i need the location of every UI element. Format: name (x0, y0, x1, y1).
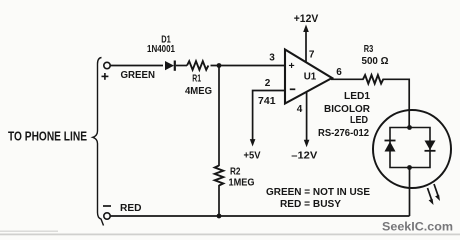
node top of square (407, 125, 412, 130)
pin 4 wire -12V (306, 92, 308, 141)
resistor R2 (215, 166, 224, 186)
svg-text:1MEG: 1MEG (229, 178, 255, 189)
label GREEN (121, 69, 156, 81)
wire junction down to R2 (218, 66, 220, 167)
svg-text:SeekIC.com: SeekIC.com (382, 222, 453, 234)
svg-text:741: 741 (258, 95, 276, 107)
svg-text:4: 4 (297, 104, 303, 115)
svg-text:RED: RED (120, 202, 142, 214)
label 741 (258, 95, 276, 107)
label 500 ohm (362, 56, 389, 67)
label BICOLOR (324, 104, 371, 115)
wire D1 to R1 (176, 65, 187, 67)
svg-text:U1: U1 (304, 71, 317, 83)
label RED (120, 202, 142, 214)
wire RED line (111, 215, 410, 217)
wire R2 to RED line (218, 185, 220, 216)
opamp plus input mark (289, 60, 295, 72)
svg-text:–12V: –12V (291, 149, 317, 161)
pin 4 label (297, 104, 303, 115)
node junction R2/RED (217, 214, 222, 219)
svg-text:3: 3 (269, 53, 275, 64)
label RS-276-012 (318, 128, 369, 139)
label 1N4001 (147, 44, 175, 55)
LED1 circle (373, 110, 451, 188)
svg-text:R1: R1 (192, 73, 201, 84)
wire R1 to op-amp pin 3 (211, 65, 286, 67)
op-amp U1 (285, 50, 332, 104)
label 4MEG (185, 86, 212, 97)
svg-text:+5V: +5V (244, 149, 261, 161)
label -12V (291, 149, 317, 161)
pin 6 label (336, 67, 342, 78)
pin 7 wire +12V (305, 30, 307, 62)
svg-text:BICOLOR: BICOLOR (324, 104, 371, 115)
arrow -12V (304, 140, 310, 147)
LED inner square (390, 128, 430, 168)
diode right (points down) (425, 141, 436, 151)
label TO PHONE LINE (8, 130, 87, 144)
pin 7 label (309, 50, 315, 61)
label 1MEG (229, 178, 255, 189)
svg-text:GREEN: GREEN (121, 69, 156, 81)
label R2 (230, 167, 241, 178)
svg-text:2: 2 (265, 78, 271, 89)
label R1 (192, 73, 201, 84)
svg-text:7: 7 (309, 50, 315, 61)
minus sign (103, 205, 111, 207)
svg-text:+: + (289, 60, 295, 72)
label D1 (161, 35, 171, 46)
svg-text:R3: R3 (364, 44, 374, 55)
diode left (points up) (385, 141, 396, 152)
label +5V (244, 149, 261, 161)
svg-text:LED1: LED1 (344, 91, 370, 102)
svg-text:4MEG: 4MEG (185, 86, 212, 97)
terminal RED (-) (104, 213, 110, 219)
watermark SeekIC.com (382, 222, 453, 234)
svg-text:6: 6 (336, 67, 342, 78)
label LED (350, 115, 368, 126)
wire pin 2 to +5V branch (253, 91, 286, 141)
brace TO PHONE LINE (93, 58, 104, 226)
pin 2 label (265, 78, 271, 89)
node junction R1/R2 (217, 63, 222, 68)
resistor R3 (363, 75, 383, 84)
svg-text:500 Ω: 500 Ω (362, 56, 389, 67)
svg-text:RED = BUSY: RED = BUSY (280, 199, 341, 210)
arrow +5V (250, 139, 256, 146)
resistor R1 (187, 61, 208, 70)
node bottom of square (407, 165, 412, 170)
label U1 (304, 71, 317, 83)
wire op-amp output to R3 (331, 78, 364, 80)
LED emission arrow 2 (434, 184, 440, 201)
label LED1 (344, 91, 370, 102)
svg-text:LED: LED (350, 115, 368, 126)
scan streak bottom (0, 231, 460, 236)
wire LED bottom to RED line (409, 168, 411, 217)
svg-text:TO PHONE LINE: TO PHONE LINE (8, 130, 87, 144)
plus sign (102, 73, 109, 80)
arrow +12V (303, 25, 309, 33)
label +12V (294, 13, 319, 25)
wire R3 to LED (383, 79, 410, 127)
svg-text:RS-276-012: RS-276-012 (318, 128, 369, 139)
label R3 (364, 44, 374, 55)
wire GREEN terminal to D1 (111, 65, 164, 67)
terminal GREEN (+) (104, 62, 110, 68)
pin 3 label (269, 53, 275, 64)
diode D1 (165, 61, 175, 71)
svg-text:1N4001: 1N4001 (147, 44, 175, 55)
svg-text:+12V: +12V (294, 13, 319, 25)
note RED = BUSY (280, 199, 341, 210)
svg-text:GREEN = NOT IN USE: GREEN = NOT IN USE (266, 187, 370, 198)
note GREEN = NOT IN USE (266, 187, 370, 198)
opamp minus input mark (290, 88, 296, 90)
svg-text:R2: R2 (230, 167, 241, 178)
LED emission arrow 1 (428, 188, 434, 205)
